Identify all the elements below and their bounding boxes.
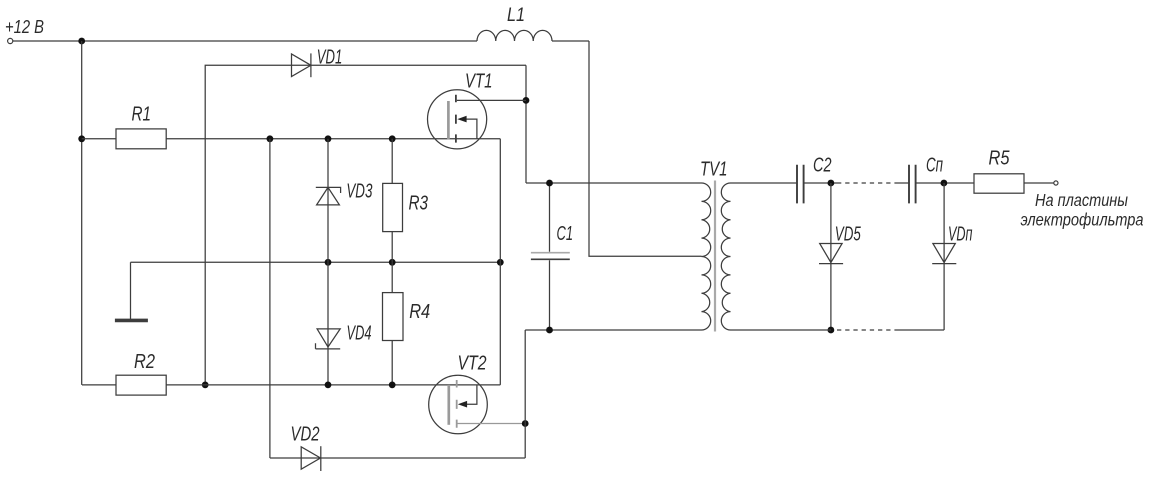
wire C2 to node [804,182,837,184]
diode VD2 [301,447,320,469]
node Cn/VDn [941,180,948,187]
svg-text:C1: C1 [557,223,574,245]
node gate1/VD2 vertical [267,135,274,142]
wire R5 to output [1024,182,1054,184]
node gate1/VD3 [325,135,332,142]
resistor R2 [116,375,166,395]
wire VD2 branch vertical [269,139,271,458]
svg-text:На пластины: На пластины [1035,190,1128,210]
svg-text:C2: C2 [813,155,832,177]
wire left vertical bus [81,41,83,385]
svg-text:VD4: VD4 [347,323,372,345]
node gate1/R3 [389,135,396,142]
svg-text:VD1: VD1 [317,46,343,68]
wire R3 vertical [391,139,393,262]
svg-text:VD5: VD5 [835,224,862,246]
wire ground bus [131,261,501,263]
wire secondary bottom lead [731,329,831,331]
capacitor C2 [797,165,804,204]
node ground/R3-R4 [389,259,396,266]
wire drain2 vertical [524,330,526,458]
transistor VT1 [428,90,527,149]
node left vertical / R1 line [78,135,85,142]
svg-text:R1: R1 [132,104,152,126]
node C2/VD5 [828,180,835,187]
svg-text:L1: L1 [507,5,525,26]
secondary winding [721,183,730,330]
svg-text:VD3: VD3 [346,181,372,203]
node C1 bottom [546,327,553,334]
node gate2/VD4 [325,382,332,389]
svg-text:R4: R4 [409,301,430,323]
wire dashed bottom extension [837,329,895,331]
node gate2/R4 [389,382,396,389]
svg-text:R3: R3 [409,193,429,215]
node ground/source vertical [497,259,504,266]
wire Cn to R5 [916,182,974,184]
resistor R1 [116,129,166,149]
zener diode VD4 [327,262,329,385]
node VD5 bottom [828,327,835,334]
zener diode VD3 [327,139,329,262]
ground [130,262,132,319]
diode VDn [943,183,945,330]
resistor R4 [383,293,404,341]
wire gate1 bus [82,138,501,140]
svg-text:VDп: VDп [948,224,973,246]
resistor R3 [383,183,403,231]
wire primary bottom line [525,329,701,331]
wire center-tap drop [589,41,702,256]
svg-text:R5: R5 [989,148,1011,170]
svg-text:TV1: TV1 [700,158,728,180]
inductor L1 [477,30,552,41]
svg-text:R2: R2 [134,351,155,373]
diode VD5 [830,183,832,330]
transistor VT2 [429,375,526,434]
wire top rail right [552,40,589,42]
wire drain1 vertical [525,65,527,183]
primary winding [702,183,711,330]
svg-text:+12 В: +12 В [5,17,44,37]
svg-text:VD2: VD2 [291,424,320,446]
node top rail / left vertical [78,38,85,45]
svg-text:электрофильтра: электрофильтра [1021,210,1144,230]
svg-text:Сп: Сп [926,155,943,177]
wire bottom to VDn [895,329,944,331]
wire common source vertical [499,139,501,385]
terminal +12V input [8,38,13,43]
resistor R5 [974,174,1024,193]
svg-text:VT2: VT2 [458,353,487,375]
node VD1 on gate2 bus [202,382,209,389]
wire secondary top lead [731,182,798,184]
capacitor Cn [909,165,916,204]
terminal output [1054,181,1058,185]
wire VD1 branch [205,65,526,385]
node drain VT2 [522,420,529,427]
wire dashed top extension [837,182,898,184]
diode VD1 [292,54,311,77]
node ground/VD3-VD4 [325,259,332,266]
capacitor C1 [549,183,551,330]
svg-text:VT1: VT1 [465,71,493,93]
wire gate2 bus [82,384,500,386]
wire top rail left [13,40,477,42]
wire R4 vertical [391,262,393,385]
wire drain1 to primary top [526,182,702,184]
wire VD2 line [270,457,525,459]
core [714,181,716,332]
node C1 top [546,180,553,187]
node drain VT1 [523,97,530,104]
transformer TV1 [702,181,731,332]
wire to Cn [898,182,909,184]
